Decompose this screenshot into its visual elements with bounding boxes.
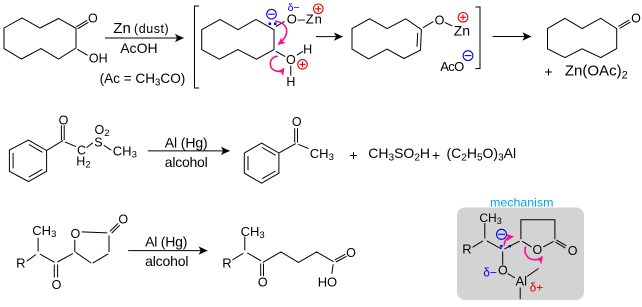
svg-text:R: R (462, 242, 471, 257)
svg-text:(C2H5O)3Al: (C2H5O)3Al (447, 145, 517, 164)
svg-text:HO: HO (318, 275, 337, 290)
svg-text:OH: OH (89, 51, 108, 65)
svg-text:Al (Hg): Al (Hg) (165, 135, 208, 151)
svg-text:S: S (94, 136, 102, 150)
svg-text:δ−: δ− (483, 265, 497, 279)
svg-text:alcohol: alcohol (145, 253, 188, 269)
svg-text:H: H (303, 42, 312, 56)
svg-text:+: + (544, 64, 552, 80)
svg-text:O: O (498, 263, 508, 277)
svg-text:O: O (533, 243, 543, 257)
svg-text:O: O (52, 278, 62, 292)
svg-text:mechanism: mechanism (490, 195, 554, 209)
svg-text:(dust): (dust) (134, 22, 169, 36)
svg-text:O: O (286, 53, 296, 67)
svg-text:CH3: CH3 (32, 223, 56, 240)
svg-text:Zn(OAc)2: Zn(OAc)2 (565, 63, 628, 82)
svg-text:alcohol: alcohol (165, 154, 208, 170)
svg-text:O: O (568, 244, 578, 258)
svg-text:+: + (432, 147, 440, 163)
svg-text:H2: H2 (76, 155, 90, 171)
svg-text:Al: Al (516, 273, 528, 288)
svg-text:Zn: Zn (454, 22, 470, 38)
svg-text:O: O (88, 12, 98, 26)
svg-text:O: O (59, 113, 69, 127)
svg-text:(Ac = CH3CO): (Ac = CH3CO) (100, 70, 186, 89)
svg-text:CH3: CH3 (241, 224, 265, 241)
svg-text:O2: O2 (95, 123, 110, 139)
svg-text:R: R (16, 255, 25, 270)
svg-text:O: O (346, 246, 356, 260)
svg-text:AcO: AcO (440, 59, 464, 74)
svg-text:O: O (292, 115, 302, 129)
svg-text:CH3: CH3 (113, 144, 137, 161)
svg-text:O: O (258, 276, 268, 290)
svg-text:CH3: CH3 (310, 146, 334, 163)
svg-text:CH3SO2H: CH3SO2H (368, 145, 430, 164)
svg-text:Al (Hg): Al (Hg) (145, 234, 187, 250)
svg-text:Zn: Zn (113, 20, 131, 37)
svg-text:AcOH: AcOH (120, 40, 157, 56)
svg-text:O: O (118, 213, 128, 227)
svg-text:O: O (631, 11, 641, 25)
svg-text:H: H (286, 75, 295, 89)
svg-text:O: O (71, 227, 81, 241)
svg-text:R: R (222, 256, 231, 271)
svg-text:O: O (435, 13, 445, 27)
svg-text:+: + (349, 147, 357, 163)
svg-text:δ+: δ+ (530, 280, 544, 294)
svg-text:δ−: δ− (288, 2, 300, 14)
